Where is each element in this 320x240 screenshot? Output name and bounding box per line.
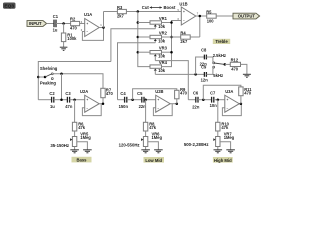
wire U2A feedback loop (82, 104, 101, 116)
svg-text:VR2: VR2 (159, 30, 168, 35)
svg-text:1u: 1u (53, 28, 58, 33)
svg-text:−: − (86, 30, 88, 34)
wire shelving contact to R7 (53, 74, 103, 89)
resistor R2 470 (70, 17, 80, 31)
op-amp U2A bass gyrator (80, 89, 99, 112)
svg-text:Boost: Boost (164, 5, 176, 10)
ground (treble) (243, 74, 251, 77)
ground (bass gyrator) (70, 150, 79, 153)
capacitor C8 22n (200, 47, 208, 66)
svg-text:High Mid: High Mid (214, 158, 232, 163)
wire U3A feedback loop (222, 104, 241, 116)
wire input to C1 (47, 23, 54, 25)
svg-text:R3: R3 (117, 5, 123, 10)
svg-text:U3A: U3A (225, 89, 233, 94)
resistor R8 47k (143, 100, 156, 137)
svg-text:47k: 47k (221, 125, 229, 130)
svg-text:U2A: U2A (80, 89, 88, 94)
label Treble (213, 39, 230, 44)
wire C5 to U2B (144, 99, 156, 101)
svg-text:−: − (183, 19, 185, 23)
capacitor C2 1u (49, 91, 55, 109)
svg-text:22n: 22n (192, 105, 200, 110)
potentiometer VR3 10k (high mid) (138, 46, 172, 61)
wire C1 to R2 with node (56, 23, 71, 25)
capacitor C5 22n (137, 91, 146, 109)
junction switch common (224, 63, 227, 66)
svg-text:R2: R2 (70, 17, 76, 22)
svg-text:C8: C8 (201, 47, 207, 52)
junction right bus VR3 (170, 51, 173, 54)
potentiometer VR1 10k (bass) (138, 16, 172, 29)
wire C3 to U2A (70, 99, 85, 101)
svg-text:100: 100 (207, 19, 215, 24)
svg-text:R5: R5 (206, 9, 212, 14)
junction C2/C3 shelving node (60, 98, 63, 101)
resistor R6 47k (72, 100, 85, 137)
wire R2 to U1A (80, 23, 85, 25)
svg-text:470: 470 (244, 91, 252, 96)
svg-text:Peaking: Peaking (40, 81, 57, 86)
wire C6 to C7 (198, 99, 211, 101)
svg-text:10n: 10n (210, 103, 218, 108)
svg-text:U1B: U1B (179, 1, 187, 6)
svg-text:1Meg: 1Meg (224, 135, 235, 140)
switch shelving/peaking (38, 66, 57, 85)
wire R9 over-wire (133, 89, 177, 100)
wire left pot bus (138, 12, 150, 67)
svg-text:−: − (157, 106, 159, 110)
resistor R9 470 (175, 87, 188, 104)
svg-text:Shelving: Shelving (40, 66, 58, 71)
svg-text:U2B: U2B (155, 89, 163, 94)
svg-text:470: 470 (106, 91, 114, 96)
svg-text:+: + (227, 98, 229, 102)
svg-text:VR3: VR3 (159, 46, 168, 51)
svg-text:2k7: 2k7 (180, 39, 188, 44)
wire C4 to C5 (127, 99, 142, 101)
ground (high mid wiper) (226, 150, 235, 153)
svg-text:C3: C3 (65, 91, 71, 96)
wire VR3 wiper to high mid feed (155, 61, 188, 100)
svg-text:+: + (183, 10, 185, 14)
wire R4 riser to output node (199, 16, 201, 37)
svg-text:R4: R4 (180, 30, 186, 35)
junction top rail / left bus (137, 10, 140, 13)
svg-text:500-2,280Hz: 500-2,280Hz (184, 142, 209, 147)
junction C6/C7 feedback node (202, 98, 205, 101)
ground (bass wiper) (83, 150, 92, 153)
wire U3A output (239, 103, 241, 105)
svg-text:−: − (227, 106, 229, 110)
svg-text:10k: 10k (158, 24, 166, 29)
wire U2B output (170, 103, 177, 105)
label High Mid (213, 157, 233, 163)
svg-text:12n: 12n (201, 78, 209, 83)
svg-text:100k: 100k (67, 36, 77, 41)
wire U2A output (99, 103, 103, 105)
svg-text:470: 470 (70, 26, 78, 31)
label Cut/Boost (142, 5, 176, 10)
wire R5 to output tag (216, 15, 233, 17)
junction bass gyrator node (73, 98, 76, 101)
junction bass switch common (37, 76, 40, 79)
wire U1A output (99, 27, 103, 29)
capacitor C6 22n (192, 90, 200, 109)
ground (low mid gyrator) (141, 150, 150, 153)
svg-text:35-150Hz: 35-150Hz (50, 143, 69, 148)
label Low Mid (144, 157, 165, 163)
svg-text:22n: 22n (139, 104, 147, 109)
wire U2B feedback loop (153, 104, 172, 116)
resistor R12 470 (230, 58, 240, 72)
svg-text:Low Mid: Low Mid (145, 158, 162, 163)
wire VR2 wiper to low mid feed (118, 43, 156, 100)
potentiometer VR2 10k (low mid) (138, 30, 168, 43)
svg-text:EQ3: EQ3 (4, 4, 14, 10)
ground (low mid wiper) (154, 150, 163, 153)
svg-text:R12: R12 (231, 58, 239, 63)
wire R12 to ground (241, 64, 247, 74)
junction shelving branch (60, 73, 63, 76)
op-amp U3A high mid gyrator (225, 89, 240, 112)
resistor R5 100 (206, 9, 216, 23)
svg-text:150n: 150n (119, 104, 129, 109)
wire high mid row left (188, 99, 195, 101)
wire treble feed from VR4 wiper (C9 row) (155, 73, 204, 75)
ground (high mid gyrator) (214, 150, 223, 153)
logo badge EQ3 (3, 3, 16, 10)
svg-text:C1: C1 (53, 14, 59, 19)
svg-text:INPUT: INPUT (29, 21, 42, 26)
svg-text:2.5kHz: 2.5kHz (213, 53, 226, 58)
svg-text:Bass: Bass (76, 158, 87, 163)
wire treble left branch up to C8 (196, 57, 205, 74)
junction right bus VR2/R4 (170, 36, 173, 39)
node INPUT tag (27, 21, 47, 27)
wire C9 to switch lower contact (206, 68, 213, 74)
junction U1B output node (199, 15, 202, 18)
svg-text:470: 470 (231, 67, 239, 72)
svg-text:C6: C6 (193, 90, 199, 95)
potentiometer VR7 1Meg (high mid tune) (213, 131, 234, 149)
svg-text:+: + (157, 98, 159, 102)
svg-text:120-550Hz: 120-550Hz (119, 142, 140, 147)
potentiometer VR4 10k (treble) (150, 60, 168, 75)
svg-text:C4: C4 (120, 91, 126, 96)
wire shelving branch down to C2/C3 node (61, 74, 63, 100)
junction bus VR3 (137, 51, 140, 54)
resistor R11 470 (239, 87, 253, 104)
junction treble caps (194, 73, 197, 76)
junction high mid gyrator node (217, 98, 220, 101)
svg-text:10k: 10k (158, 39, 166, 44)
svg-text:1Meg: 1Meg (80, 135, 91, 140)
capacitor C7 10n (210, 90, 218, 108)
svg-text:+: + (86, 98, 88, 102)
wire switch to R12 (225, 63, 231, 65)
svg-text:C2: C2 (49, 91, 55, 96)
wire C2 to C3 (54, 99, 67, 101)
junction C1/R1/R2 (62, 22, 65, 25)
op-amp U1A input buffer (81, 12, 103, 36)
switch treble frequency select (213, 53, 226, 78)
svg-text:10k: 10k (158, 54, 166, 59)
wire C8 to switch upper contact (206, 57, 213, 62)
junction U2B output / R9 (176, 102, 179, 105)
capacitor C3 47n (65, 91, 73, 109)
svg-text:2k7: 2k7 (117, 14, 125, 19)
resistor R3 2k7 (117, 5, 126, 19)
svg-text:Cut: Cut (142, 5, 150, 10)
svg-text:+: + (86, 22, 88, 26)
wire top rail to U1B (126, 11, 181, 13)
capacitor C1 1u (53, 14, 59, 33)
svg-text:C9: C9 (201, 65, 207, 70)
svg-text:U1A: U1A (84, 12, 92, 17)
wire VR1 wiper to bass feed (111, 29, 155, 62)
op-amp U1B summing amp (178, 1, 199, 25)
svg-text:47n: 47n (65, 104, 73, 109)
wire C7 to U3A (214, 99, 225, 101)
wire R11 over-wire (203, 85, 241, 99)
svg-text:−: − (86, 106, 88, 110)
junction bus VR1 (137, 21, 140, 24)
svg-text:10k: 10k (158, 68, 166, 73)
op-amp U2B low mid gyrator (155, 89, 170, 112)
wire bass row left (38, 99, 51, 101)
wire U1A feedback loop (82, 28, 103, 41)
junction U3A output / R11 (240, 102, 243, 105)
ground (input bias) (60, 47, 68, 50)
node OUTPUT tag (233, 13, 260, 19)
junction U2A output / R7 (102, 102, 105, 105)
resistor R1 100k (61, 24, 77, 48)
svg-text:C7: C7 (210, 90, 216, 95)
wire right pot bus (162, 21, 182, 67)
label Bass (72, 157, 92, 163)
resistor R4 2k7 (feedback) (162, 30, 200, 44)
resistor R10 47k (216, 100, 230, 137)
svg-text:VR4: VR4 (159, 60, 168, 65)
wire U1A output riser to top rail (103, 12, 105, 28)
junction bus VR2 (137, 36, 140, 39)
potentiometer VR5 1Meg (bass tune) (70, 131, 91, 149)
svg-text:Treble: Treble (215, 39, 228, 44)
wire top rail left segment (104, 11, 118, 13)
resistor R7 470 (101, 87, 114, 103)
svg-text:1u: 1u (50, 104, 55, 109)
wire U1B output (196, 15, 207, 17)
svg-text:C5: C5 (137, 91, 143, 96)
junction C4/C5 feedback node (131, 98, 134, 101)
wire low mid row left (118, 99, 125, 101)
svg-text:470: 470 (180, 91, 188, 96)
junction U1A output node (102, 26, 105, 29)
svg-text:47k: 47k (78, 125, 86, 130)
svg-text:5kHz: 5kHz (213, 73, 223, 78)
svg-text:OUTPUT: OUTPUT (238, 14, 256, 19)
svg-text:47k: 47k (149, 125, 157, 130)
capacitor C9 12n (201, 65, 209, 83)
potentiometer VR6 1Meg (low mid tune) (141, 131, 162, 149)
capacitor C4 150n (119, 91, 129, 109)
svg-text:1Meg: 1Meg (152, 135, 163, 140)
junction low mid gyrator node (144, 98, 147, 101)
svg-text:VR1: VR1 (159, 16, 168, 21)
wire bass feed from VR1 (38, 62, 111, 100)
junction right bus VR1 (170, 21, 173, 24)
